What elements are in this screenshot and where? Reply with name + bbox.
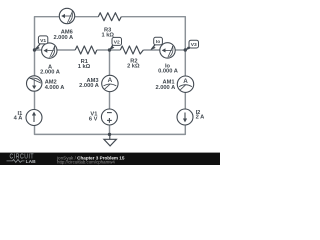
resistor R1	[75, 46, 97, 54]
current source I1	[26, 110, 42, 126]
svg-text:V2: V2	[114, 39, 120, 45]
ground	[104, 134, 117, 146]
wire middle from node V2 to R2	[110, 49, 121, 51]
wire top from node V1 rail to ammeter AM6	[35, 17, 60, 50]
voltage source V1	[101, 109, 117, 125]
svg-text:V1: V1	[40, 38, 46, 44]
svg-text:V3: V3	[191, 42, 197, 48]
svg-text:0.000 A: 0.000 A	[158, 68, 178, 74]
wire left rail from AM2 to I1	[34, 91, 36, 109]
wire top between AM6 and R3	[75, 16, 99, 18]
svg-text:2 kΩ: 2 kΩ	[127, 63, 140, 69]
svg-text:Io: Io	[156, 39, 160, 45]
svg-text:2 A: 2 A	[196, 114, 205, 120]
svg-text:2.000 A: 2.000 A	[53, 35, 73, 41]
ammeter AM6	[59, 8, 74, 23]
node flag V2	[109, 37, 121, 50]
resistor R2	[120, 46, 143, 54]
svg-text:2.000 A: 2.000 A	[40, 70, 60, 76]
svg-text:1 kΩ: 1 kΩ	[78, 64, 91, 70]
junction node V2	[108, 48, 111, 51]
svg-text:2.000 A: 2.000 A	[155, 85, 175, 91]
current source I2	[177, 109, 193, 125]
wire bottom from ground node to right rail	[110, 125, 186, 134]
wire right rail from AM1 to I2	[184, 92, 186, 109]
wire middle from Io to node V3	[175, 49, 185, 51]
resistor R3	[98, 13, 121, 21]
svg-text:4 A: 4 A	[14, 115, 23, 121]
ammeter AM2	[27, 76, 42, 91]
wire middle from R2 to ammeter Io	[143, 49, 160, 51]
ammeter AM3	[102, 75, 118, 91]
ammeter A	[42, 43, 57, 58]
junction ground node	[108, 133, 111, 136]
wire middle from node V1 to ammeter A	[35, 49, 42, 51]
svg-text:6 V: 6 V	[89, 117, 98, 123]
footer logo resistor and LAB	[7, 159, 25, 162]
junction node V3	[184, 48, 187, 51]
wire middle rail from node V2 to AM3	[109, 50, 111, 75]
svg-text:http://circuitlab.com/cphamw4: http://circuitlab.com/cphamw4	[57, 160, 115, 165]
ammeter Io	[160, 43, 175, 58]
wire middle rail from V1 source to ground node	[109, 125, 111, 134]
wire top from R3 to right rail corner down to node V3	[121, 17, 185, 50]
wire left rail from I1 to bottom corner	[35, 125, 110, 134]
svg-text:4.000 A: 4.000 A	[45, 85, 65, 91]
ammeter AM1	[177, 76, 193, 92]
junction node V1	[33, 48, 36, 51]
wire right rail from node V3 to AM1	[184, 50, 186, 76]
node flag V3	[185, 40, 199, 50]
wire middle from R1 to node V2	[97, 49, 110, 51]
wire middle rail from AM3 to V1 source	[109, 92, 111, 110]
wire left rail from node V1 to AM2	[34, 50, 36, 76]
node flag V1	[34, 36, 48, 51]
wire middle from A to R1	[57, 49, 75, 51]
node flag Io	[150, 37, 162, 50]
svg-text:2.000 A: 2.000 A	[79, 83, 99, 89]
svg-text:LAB: LAB	[26, 159, 37, 165]
footer bar	[0, 153, 220, 165]
